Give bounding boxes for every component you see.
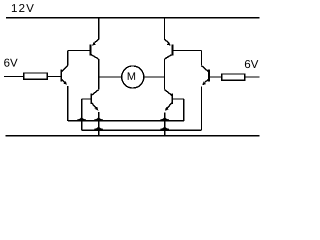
label M (motor) [128, 72, 135, 80]
wire: Q1 base [68, 50, 91, 52]
transistor Q4 (NPN bottom-right) [165, 90, 173, 109]
Q5 emitter arrow [63, 81, 67, 85]
wire: Q4 base [172, 98, 184, 100]
wire: Q5 collector to Q1 base [67, 51, 69, 66]
junction Q4-emitter x wire B [160, 126, 169, 130]
wire: R1 to Q5 base [47, 76, 61, 78]
transistor Q2 (PNP top-right) [165, 39, 173, 59]
Q4 emitter arrow [165, 107, 169, 111]
junction Q3-emitter x wire B [94, 126, 103, 130]
junction Q3-base-vert x wire A [77, 117, 86, 121]
wire: Q4 base vertical down to wire A [183, 99, 185, 121]
transistor Q3 (NPN bottom-left) [91, 90, 98, 108]
wire: Q2 base [172, 50, 201, 52]
Q6 emitter arrow [202, 82, 206, 86]
Q1 emitter arrow [92, 42, 96, 46]
wire: Q1 collector down through motor node to Q3 collector [98, 59, 100, 90]
transistor Q5 (NPN left driver) [61, 66, 68, 83]
wire: Q6 emitter down to cross wire B [201, 86, 203, 130]
wire: Q4 emitter to ground rail [164, 112, 166, 135]
wire: R2 to Q6 base [209, 76, 222, 78]
12V supply rail [6, 17, 260, 19]
transistor Q6 (NPN right driver) [202, 66, 210, 83]
wire: Q3 emitter to ground rail [98, 112, 100, 135]
transistor Q1 (PNP top-left) [91, 39, 99, 59]
junction Q4-emitter x wire A [160, 117, 169, 121]
wire: Q6 collector to Q2 base [201, 51, 203, 66]
wire: Q3 base [82, 98, 92, 100]
resistor R1 (left) [24, 73, 48, 79]
wire: 12V rail to Q1 emitter [98, 18, 100, 40]
junction Q3-emitter x wire A [94, 117, 103, 121]
ground rail [6, 135, 260, 137]
wire B: Q3 base to Q6 emitter [82, 129, 202, 131]
Q2 emitter arrow [167, 42, 171, 46]
wire: Q3 base vertical down to wire B [81, 99, 83, 130]
6V input wire left [4, 76, 24, 78]
wire A: Q5 emitter to Q4 base [68, 120, 184, 122]
motor M [99, 66, 165, 88]
wire: 12V rail to Q2 emitter [164, 18, 166, 40]
label 12V [12, 4, 34, 12]
label 6V right [245, 60, 258, 68]
wire: Q5 emitter down to cross wire A [67, 86, 69, 121]
6V input wire right [245, 76, 260, 78]
Q3 emitter arrow [95, 107, 99, 111]
label 6V left [4, 59, 17, 67]
wire: Q2 collector down through motor node to Q4 collector [164, 59, 166, 90]
resistor R2 (right) [222, 74, 245, 80]
